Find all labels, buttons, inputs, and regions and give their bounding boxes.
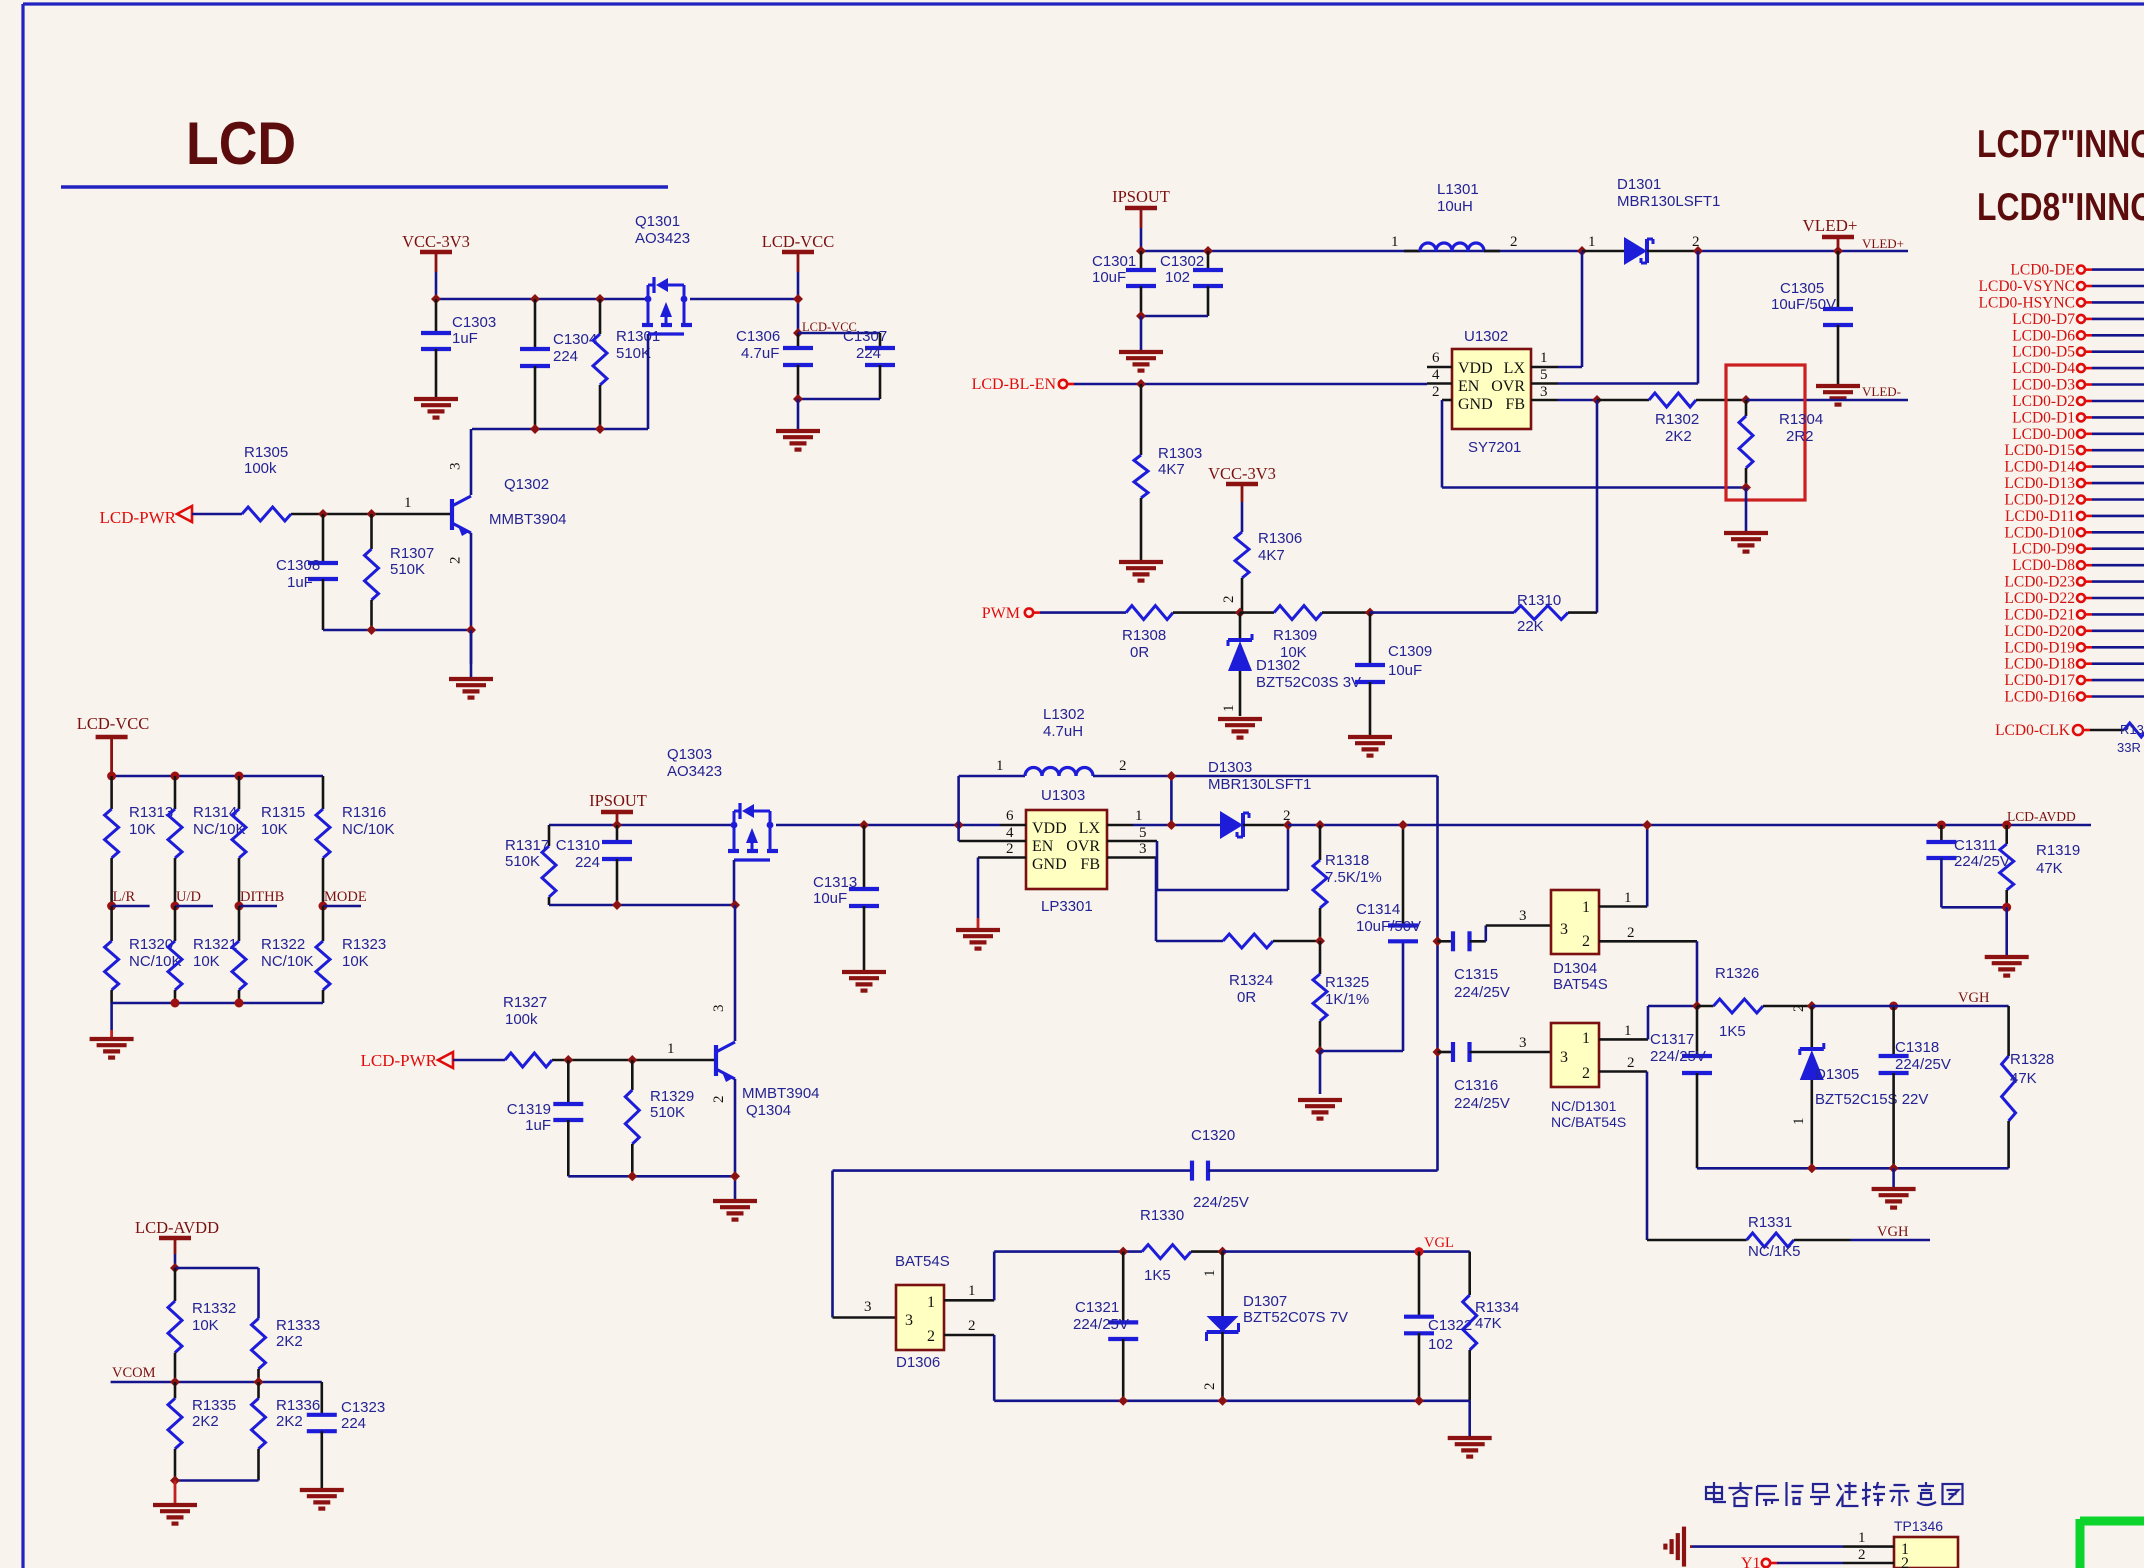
svg-text:R1322: R1322	[261, 936, 305, 953]
IC NC/D1301 NC/BAT54S	[1551, 1023, 1599, 1087]
page border frame	[23, 2, 2144, 5]
wire FB to R1310	[1596, 400, 1599, 613]
resistor R1333 2K2	[252, 1319, 266, 1370]
svg-text:R1325: R1325	[1325, 974, 1369, 991]
svg-text:D1303: D1303	[1208, 759, 1252, 776]
svg-text:510K: 510K	[616, 345, 651, 362]
ground	[1218, 717, 1262, 721]
svg-text:4.7uH: 4.7uH	[1043, 723, 1083, 740]
resistor R1307	[370, 514, 373, 549]
svg-text:R1301: R1301	[616, 328, 660, 345]
svg-text:LCD-PWR: LCD-PWR	[100, 508, 177, 527]
capacitor C1304	[534, 299, 537, 349]
svg-text:R1328: R1328	[2010, 1051, 2054, 1068]
resistor R1309	[1240, 611, 1274, 614]
transistor Q1303 AO3423 PMOS	[731, 822, 738, 829]
junction	[627, 1171, 637, 1181]
wire LX to switch node	[1558, 366, 1582, 369]
resistor R1329 510K	[631, 1060, 634, 1090]
junction	[466, 625, 476, 635]
resistor R1319 47K	[2005, 825, 2008, 844]
svg-text:2: 2	[1119, 758, 1127, 774]
diode D1301 MBR130LSFT1	[1582, 250, 1624, 253]
svg-text:FB: FB	[1505, 396, 1525, 413]
svg-text:OVR: OVR	[1491, 378, 1525, 395]
resistor R1332 10K	[174, 1268, 177, 1301]
pin 4	[959, 840, 1026, 843]
IC D1306 BAT54S	[896, 1285, 944, 1350]
junction	[1118, 1247, 1128, 1257]
capacitor C1323 224	[320, 1382, 323, 1415]
svg-text:3: 3	[905, 1312, 913, 1329]
svg-text:2: 2	[1627, 1055, 1635, 1071]
svg-text:D1301: D1301	[1617, 176, 1661, 193]
svg-text:3: 3	[448, 463, 464, 471]
svg-text:R1310: R1310	[1517, 592, 1561, 609]
svg-text:C1307: C1307	[843, 328, 887, 345]
svg-text:3: 3	[1540, 384, 1548, 400]
svg-text:R1314: R1314	[193, 804, 237, 821]
svg-text:VDD: VDD	[1458, 360, 1493, 377]
svg-text:2: 2	[1582, 933, 1590, 950]
resistor R1323	[322, 906, 325, 941]
svg-text:GND: GND	[1458, 396, 1493, 413]
svg-text:2: 2	[1582, 1065, 1590, 1082]
svg-text:LCD0-D4: LCD0-D4	[2012, 360, 2075, 377]
junction	[1315, 1046, 1325, 1056]
capacitor C1307	[798, 332, 880, 335]
junction	[170, 1377, 180, 1387]
svg-text:BZT52C03S 3V: BZT52C03S 3V	[1256, 674, 1361, 691]
ground	[2005, 907, 2008, 955]
svg-text:R1317: R1317	[505, 837, 549, 854]
svg-text:R1313: R1313	[129, 804, 173, 821]
junction	[2002, 903, 2011, 912]
ground	[1140, 316, 1143, 350]
svg-text:224/25V: 224/25V	[1954, 853, 2010, 870]
wire VGL rail	[1223, 1250, 1470, 1253]
junction	[1218, 1396, 1228, 1406]
svg-text:4: 4	[1006, 825, 1014, 841]
svg-text:1: 1	[927, 1294, 935, 1311]
svg-text:3: 3	[1139, 841, 1147, 857]
svg-text:2: 2	[1202, 1383, 1218, 1391]
svg-text:BZT52C07S 7V: BZT52C07S 7V	[1243, 1309, 1348, 1326]
svg-text:LP3301: LP3301	[1041, 898, 1093, 915]
svg-text:4.7uF: 4.7uF	[741, 345, 779, 362]
svg-text:R1303: R1303	[1158, 445, 1202, 462]
svg-text:Y1: Y1	[1741, 1555, 1761, 1568]
svg-text:102: 102	[1428, 1336, 1453, 1353]
ground	[1119, 560, 1163, 564]
IC U1302 SY7201	[1452, 349, 1531, 429]
svg-text:MMBT3904: MMBT3904	[489, 511, 567, 528]
capacitor C1315 224/25V	[1438, 940, 1454, 943]
wire diode out to VLED+	[1698, 250, 1908, 253]
svg-text:D1305: D1305	[1815, 1066, 1859, 1083]
svg-text:R1320: R1320	[129, 936, 173, 953]
wire L1302 to LX	[1170, 776, 1173, 825]
svg-text:C1319: C1319	[507, 1101, 551, 1118]
svg-text:1uF: 1uF	[452, 330, 478, 347]
junction	[954, 820, 964, 830]
junction	[1414, 1396, 1424, 1406]
svg-text:1: 1	[1135, 808, 1143, 824]
junction	[1283, 820, 1293, 830]
svg-text:LX: LX	[1079, 820, 1101, 837]
svg-text:C1316: C1316	[1454, 1077, 1498, 1094]
junction C1316 tap	[1433, 1047, 1443, 1057]
svg-text:0R: 0R	[1237, 989, 1256, 1006]
wire VGH rail right	[1812, 1005, 2009, 1008]
svg-text:1uF: 1uF	[287, 574, 313, 591]
svg-text:VLED+: VLED+	[1862, 236, 1904, 251]
svg-text:224: 224	[856, 345, 881, 362]
svg-text:LCD0-HSYNC: LCD0-HSYNC	[1979, 294, 2075, 311]
svg-text:VGL: VGL	[1424, 1235, 1454, 1251]
wire D1304 pin2 down	[1696, 941, 1699, 1006]
svg-text:L1302: L1302	[1043, 706, 1085, 723]
junction	[1741, 483, 1751, 493]
svg-text:10uF/50V: 10uF/50V	[1356, 918, 1421, 935]
wire PWM to R1308	[1040, 611, 1126, 614]
svg-text:VLED-: VLED-	[1862, 384, 1901, 399]
svg-text:LCD0-D13: LCD0-D13	[2004, 475, 2075, 492]
svg-text:4K7: 4K7	[1258, 547, 1285, 564]
svg-text:LCD0-D16: LCD0-D16	[2004, 689, 2075, 706]
svg-text:NC/1K5: NC/1K5	[1748, 1243, 1801, 1260]
wire pin1 up to VGH rail	[1647, 1006, 1650, 1039]
svg-text:1: 1	[1588, 234, 1596, 250]
svg-text:1: 1	[1582, 1030, 1590, 1047]
junction	[1365, 608, 1375, 618]
svg-text:IPSOUT: IPSOUT	[1112, 187, 1170, 206]
junction	[1807, 1001, 1817, 1011]
svg-text:DITHB: DITHB	[240, 889, 284, 905]
svg-text:224/25V: 224/25V	[1454, 1095, 1510, 1112]
inductor L1301	[1404, 250, 1420, 253]
svg-text:LCD7"INNO: LCD7"INNO	[1977, 123, 2144, 166]
svg-text:FB: FB	[1080, 856, 1100, 873]
svg-text:MBR130LSFT1: MBR130LSFT1	[1617, 193, 1720, 210]
svg-text:2: 2	[1627, 925, 1635, 941]
svg-text:1K/1%: 1K/1%	[1325, 991, 1369, 1008]
wire VGH bottom return	[1697, 1167, 2009, 1170]
pin 3	[1531, 399, 1558, 402]
pin 6	[1000, 824, 1026, 827]
svg-text:C1308: C1308	[276, 557, 320, 574]
zener D1305 BZT52C15S	[1811, 1006, 1814, 1049]
junction	[107, 772, 116, 781]
junction	[1136, 311, 1146, 321]
svg-text:10K: 10K	[193, 953, 220, 970]
pin 2 D1304	[1599, 940, 1697, 943]
svg-text:LCD-AVDD: LCD-AVDD	[135, 1218, 219, 1237]
svg-text:224: 224	[341, 1415, 366, 1432]
capacitor C1318 224/25V	[1892, 1006, 1895, 1056]
svg-text:Q1301: Q1301	[635, 213, 680, 230]
svg-text:EN: EN	[1458, 378, 1480, 395]
junction	[793, 328, 803, 338]
junction	[1398, 820, 1408, 830]
svg-text:R1336: R1336	[276, 1397, 320, 1414]
wire LCD-PWR to base	[453, 1059, 505, 1062]
svg-text:2: 2	[448, 557, 464, 565]
junction	[235, 772, 244, 781]
resistor R1306	[1235, 532, 1249, 578]
svg-text:10uH: 10uH	[1437, 198, 1473, 215]
svg-text:2: 2	[1221, 596, 1237, 604]
resistor R1302	[1597, 399, 1649, 402]
svg-text:R1305: R1305	[244, 444, 288, 461]
svg-text:224/25V: 224/25V	[1895, 1056, 1951, 1073]
svg-text:LCD0-D2: LCD0-D2	[2012, 393, 2075, 410]
svg-text:3: 3	[1519, 1035, 1527, 1051]
svg-text:LCD0-D6: LCD0-D6	[2012, 327, 2075, 344]
svg-text:C1313: C1313	[813, 874, 857, 891]
svg-text:LCD0-D15: LCD0-D15	[2004, 442, 2075, 459]
svg-text:LCD8"INNO: LCD8"INNO	[1977, 186, 2144, 229]
svg-text:LCD0-D10: LCD0-D10	[2004, 524, 2075, 541]
pin 2 D1306	[944, 1334, 994, 1337]
node VGL	[1415, 1247, 1424, 1256]
IC TP1346 connector	[1894, 1537, 1958, 1568]
wire NC pin2 to R1331	[1646, 1072, 1649, 1241]
svg-text:VCC-3V3: VCC-3V3	[402, 232, 470, 251]
svg-text:1: 1	[968, 1283, 976, 1299]
wire gate bus Q1301	[472, 428, 648, 431]
svg-text:C1318: C1318	[1895, 1039, 1939, 1056]
wire VLED- out	[1746, 399, 1908, 402]
svg-text:2: 2	[968, 1318, 976, 1334]
svg-text:R1324: R1324	[1229, 972, 1273, 989]
svg-text:R1307: R1307	[390, 545, 434, 562]
svg-text:BZT52C15S 22V: BZT52C15S 22V	[1815, 1091, 1928, 1108]
junction	[170, 1263, 180, 1273]
junction	[730, 900, 740, 910]
svg-text:LCD0-D0: LCD0-D0	[2012, 426, 2075, 443]
svg-text:C1310: C1310	[556, 837, 600, 854]
svg-text:C1304: C1304	[553, 331, 597, 348]
wire AVDD top	[175, 1267, 259, 1270]
capacitor C1303	[435, 299, 438, 333]
resistor R1321	[174, 906, 177, 941]
svg-text:LCD0-D5: LCD0-D5	[2012, 344, 2075, 361]
resistor R 33R	[2124, 723, 2144, 737]
wire Q1304 bottom	[568, 1175, 735, 1178]
svg-text:R1333: R1333	[276, 1317, 320, 1334]
svg-text:NC/10K: NC/10K	[261, 953, 314, 970]
resistor R1308 0R	[1126, 606, 1173, 620]
capacitor C1310	[616, 825, 619, 842]
svg-text:10K: 10K	[342, 953, 369, 970]
svg-text:224: 224	[575, 854, 600, 871]
svg-text:224/25V: 224/25V	[1193, 1194, 1249, 1211]
svg-text:10K: 10K	[261, 821, 288, 838]
svg-text:1: 1	[1582, 899, 1590, 916]
svg-text:R1304: R1304	[1779, 411, 1823, 428]
capacitor C1316 224/25V	[1438, 1051, 1454, 1054]
svg-text:R1315: R1315	[261, 804, 305, 821]
svg-text:LCD0-D8: LCD0-D8	[2012, 557, 2075, 574]
svg-text:7.5K/1%: 7.5K/1%	[1325, 869, 1382, 886]
ground	[842, 970, 886, 974]
resistor R1331 NC/1K5	[1647, 1239, 1747, 1242]
svg-text:R1330: R1330	[1140, 1207, 1184, 1224]
wire C1311 R1319 bottom	[1941, 906, 2006, 909]
svg-text:R1321: R1321	[193, 936, 237, 953]
pin 5	[1531, 382, 1558, 385]
svg-text:R1331: R1331	[1748, 1214, 1792, 1231]
svg-text:LCD0-D19: LCD0-D19	[2004, 639, 2075, 656]
svg-text:R1309: R1309	[1273, 627, 1317, 644]
svg-text:1: 1	[667, 1041, 675, 1057]
title capacitive touch chinese	[1706, 1482, 1963, 1506]
svg-text:SY7201: SY7201	[1468, 439, 1521, 456]
resistor R1320	[110, 906, 113, 941]
svg-text:1: 1	[1791, 1118, 1807, 1126]
svg-text:510K: 510K	[390, 561, 425, 578]
svg-text:2: 2	[711, 1096, 727, 1104]
svg-text:R1323: R1323	[342, 936, 386, 953]
resistor R1315	[238, 776, 241, 809]
svg-text:1: 1	[1624, 890, 1632, 906]
svg-text:VGH: VGH	[1958, 990, 1990, 1006]
svg-text:C1301: C1301	[1092, 253, 1136, 270]
svg-text:U1303: U1303	[1041, 787, 1085, 804]
wire LX out	[1133, 824, 1220, 827]
svg-text:LCD0-D21: LCD0-D21	[2004, 606, 2075, 623]
junction	[1741, 395, 1751, 405]
svg-text:5: 5	[1540, 367, 1548, 383]
svg-text:22K: 22K	[1517, 618, 1544, 635]
svg-text:2: 2	[1006, 841, 1014, 857]
junction	[1642, 820, 1652, 830]
svg-text:PWM: PWM	[982, 605, 1020, 622]
junction	[595, 294, 605, 304]
svg-text:VCOM: VCOM	[112, 1365, 156, 1381]
svg-text:EN: EN	[1032, 838, 1054, 855]
junction	[612, 820, 622, 830]
svg-text:R1318: R1318	[1325, 852, 1369, 869]
capacitor C1314 10uF/50V	[1402, 825, 1405, 926]
svg-text:47K: 47K	[2036, 860, 2063, 877]
svg-text:IPSOUT: IPSOUT	[589, 791, 647, 810]
resistor R1304 2R2	[1745, 400, 1748, 416]
svg-text:1uF: 1uF	[525, 1117, 551, 1134]
svg-text:L/R: L/R	[113, 889, 136, 905]
svg-text:R1306: R1306	[1258, 530, 1302, 547]
svg-text:LCD-VCC: LCD-VCC	[762, 232, 834, 251]
svg-text:224/25V: 224/25V	[1073, 1316, 1129, 1333]
junction	[367, 509, 377, 519]
svg-text:LCD0-DE: LCD0-DE	[2010, 262, 2075, 279]
zener D1302 BZT52C03S	[1239, 613, 1242, 640]
svg-text:2: 2	[1432, 384, 1440, 400]
junction	[595, 424, 605, 434]
ground C1323	[300, 1488, 344, 1492]
junction	[367, 625, 377, 635]
resistor R1305	[242, 507, 291, 521]
svg-text:LCD0-CLK: LCD0-CLK	[1995, 722, 2071, 739]
wire VGL bottom rail	[993, 1335, 996, 1401]
svg-text:1: 1	[996, 758, 1004, 774]
junction	[627, 1055, 637, 1065]
svg-text:C1303: C1303	[452, 314, 496, 331]
pin 1	[1107, 824, 1133, 827]
transistor Q1304 MMBT3904	[714, 1045, 718, 1076]
svg-text:100k: 100k	[244, 460, 277, 477]
pin 1 D1304	[1599, 905, 1647, 908]
svg-text:10K: 10K	[1280, 644, 1307, 661]
junction	[1235, 608, 1245, 618]
capacitor C1320 224/25V	[833, 1169, 1193, 1172]
resistor R1301	[599, 299, 602, 334]
junction	[1937, 821, 1946, 830]
wire buck input rail	[549, 824, 731, 827]
svg-text:10uF: 10uF	[1388, 662, 1422, 679]
capacitor C1317 224/25V	[1696, 1006, 1699, 1056]
svg-text:10uF: 10uF	[813, 890, 847, 907]
svg-text:10K: 10K	[192, 1317, 219, 1334]
svg-text:10uF/50V: 10uF/50V	[1771, 296, 1836, 313]
junction	[530, 294, 540, 304]
resistor R1324 0R	[1223, 934, 1273, 948]
junction	[235, 999, 244, 1008]
capacitor C1301	[1140, 251, 1143, 270]
svg-text:100k: 100k	[505, 1011, 538, 1028]
svg-text:VCC-3V3: VCC-3V3	[1208, 464, 1276, 483]
wire gate bus Q1303	[549, 904, 734, 907]
svg-text:3: 3	[711, 1005, 727, 1013]
svg-text:1K5: 1K5	[1144, 1267, 1171, 1284]
resistor R1317	[548, 825, 551, 846]
red highlight box	[1726, 365, 1805, 500]
svg-text:LCD0-D18: LCD0-D18	[2004, 656, 2075, 673]
zener D1307 BZT52C07S	[1221, 1252, 1224, 1317]
junction	[1889, 1163, 1899, 1173]
svg-text:6: 6	[1006, 808, 1014, 824]
junction C1315 tap	[1433, 936, 1443, 946]
svg-text:47K: 47K	[1475, 1315, 1502, 1332]
svg-text:510K: 510K	[650, 1104, 685, 1121]
junction	[318, 509, 328, 519]
ground	[470, 630, 473, 677]
svg-text:C1302: C1302	[1160, 253, 1204, 270]
wire TP pin2	[1777, 1562, 1843, 1565]
svg-text:224/25V: 224/25V	[1454, 984, 1510, 1001]
junction	[170, 1476, 180, 1486]
svg-text:1: 1	[1540, 350, 1548, 366]
wire TP pin1	[1692, 1545, 1843, 1548]
svg-text:510K: 510K	[505, 853, 540, 870]
svg-text:2K2: 2K2	[1665, 428, 1692, 445]
svg-text:1: 1	[404, 495, 412, 511]
svg-text:2R2: 2R2	[1786, 428, 1814, 445]
svg-text:D1306: D1306	[896, 1354, 940, 1371]
svg-text:LCD0-D1: LCD0-D1	[2012, 409, 2075, 426]
wire FB node	[1558, 399, 1597, 402]
junction	[1577, 246, 1587, 256]
svg-text:R1335: R1335	[192, 1397, 236, 1414]
resistor R1303	[1140, 384, 1143, 455]
svg-text:C1317: C1317	[1650, 1031, 1694, 1048]
svg-text:LCD: LCD	[186, 110, 296, 177]
svg-text:Q1304: Q1304	[746, 1102, 791, 1119]
svg-text:R1308: R1308	[1122, 627, 1166, 644]
svg-text:C1309: C1309	[1388, 643, 1432, 660]
wire C1320 to D1306	[831, 1171, 834, 1318]
